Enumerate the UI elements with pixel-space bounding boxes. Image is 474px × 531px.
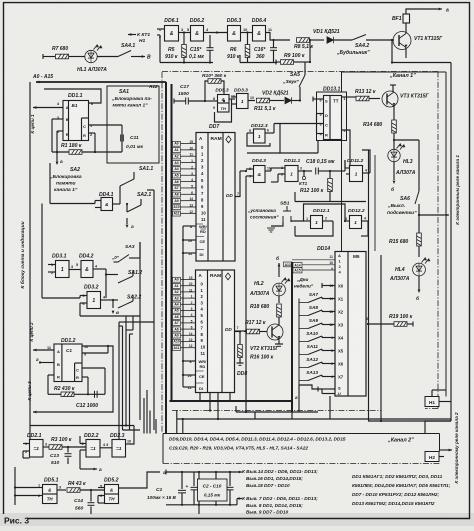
LED HL1 xyxy=(85,50,97,62)
node KT1 xyxy=(302,176,305,179)
resistor R8 xyxy=(297,38,310,43)
capacitor C13 xyxy=(67,447,69,453)
logic gate DD6.4 xyxy=(253,26,266,42)
wire xyxy=(298,170,312,172)
switches SA7-SA13 xyxy=(298,299,300,386)
resistor R12 xyxy=(329,170,331,172)
wire xyxy=(299,385,322,389)
wire xyxy=(312,97,314,102)
wire xyxy=(118,322,120,440)
node a xyxy=(80,468,92,470)
wire bus A0-A15 xyxy=(36,81,39,84)
diode VD2 xyxy=(285,97,291,103)
wire xyxy=(94,133,96,152)
wire xyxy=(310,39,324,41)
wire xyxy=(204,32,228,34)
wire xyxy=(93,268,106,270)
logic gate DD6.1 xyxy=(165,26,179,42)
lamp H2 xyxy=(425,452,439,462)
wire xyxy=(50,203,95,205)
wire xyxy=(100,447,112,449)
wire xyxy=(291,221,304,222)
wire xyxy=(157,28,165,30)
wire xyxy=(40,362,54,364)
transistor VT3 xyxy=(382,91,398,107)
wire xyxy=(266,33,291,41)
wire WR chain xyxy=(182,226,184,387)
wire xyxy=(15,487,36,489)
wire xyxy=(280,134,318,154)
net label A14 xyxy=(293,263,302,268)
IC DD7 RAM xyxy=(196,133,235,262)
bold rail xyxy=(170,400,293,402)
wire xyxy=(29,82,31,412)
wire xyxy=(159,35,161,63)
resistor R9 xyxy=(275,60,277,65)
wire xyxy=(44,89,101,103)
logic gate DD6.2 xyxy=(191,26,204,42)
resistor R11 xyxy=(257,98,270,103)
LED HL3 xyxy=(393,140,395,149)
capacitor C18 xyxy=(316,168,319,175)
transistor VT2 xyxy=(267,324,283,340)
net label К КТ1 Н1 xyxy=(128,33,131,36)
wire xyxy=(393,112,395,120)
wire xyxy=(393,139,395,141)
switch SA4.2 xyxy=(352,35,366,41)
net label A13 xyxy=(284,262,293,267)
node a xyxy=(56,162,59,165)
switch SA4.1 xyxy=(118,51,131,57)
wire xyxy=(177,418,451,420)
wire xyxy=(179,32,191,34)
wire xyxy=(391,40,393,63)
lamp H1 xyxy=(425,397,439,407)
LED HL2 xyxy=(273,283,286,296)
wire xyxy=(198,501,200,514)
wire xyxy=(248,100,255,102)
wire xyxy=(425,421,451,434)
capacitor C11 xyxy=(121,138,123,152)
terminal X0 xyxy=(321,283,323,288)
wire xyxy=(368,150,370,421)
capacitor xyxy=(193,472,195,486)
logic gate DD6.3 xyxy=(228,26,241,42)
wire к цепи 1 xyxy=(33,107,63,109)
channel 1 frame xyxy=(341,72,343,92)
wire xyxy=(97,56,118,58)
wire xyxy=(69,269,81,271)
wire xyxy=(329,396,331,412)
capacitors C2-C10 box xyxy=(198,479,228,501)
wire xyxy=(52,118,63,120)
IC DD8 RAM xyxy=(196,270,235,393)
annotation SA1 box xyxy=(107,86,159,163)
net label A15 xyxy=(293,268,302,273)
wire xyxy=(43,56,55,58)
wire xyxy=(125,316,127,330)
bus A13 bold xyxy=(291,262,293,412)
wire DD13.1 Q2 down xyxy=(342,130,351,166)
wire xyxy=(41,204,43,299)
diode VD1 xyxy=(327,37,333,43)
wire xyxy=(245,176,247,331)
wire xyxy=(240,62,277,64)
wire xyxy=(69,56,85,58)
wire xyxy=(33,349,36,352)
bus bold xyxy=(171,84,173,401)
wire xyxy=(33,346,113,412)
pins A0-A11 DD8 xyxy=(173,277,181,282)
wire to relay 1 xyxy=(418,214,420,216)
wire xyxy=(304,204,346,221)
channel divider dash-dot xyxy=(161,72,163,433)
pins A0-A11 DD7 xyxy=(173,141,181,146)
node a xyxy=(126,218,128,224)
wire xyxy=(330,170,345,172)
wire xyxy=(278,296,280,303)
wire xyxy=(119,472,161,488)
LED HL4 xyxy=(413,263,426,276)
wire xyxy=(292,259,335,261)
wire xyxy=(104,368,106,394)
transistor VT1 xyxy=(391,39,393,41)
resistor R7 xyxy=(56,54,69,59)
switch SA5 xyxy=(304,62,306,75)
ground xyxy=(267,228,275,232)
wire xyxy=(166,504,237,506)
wire xyxy=(241,32,253,34)
capacitor C12 xyxy=(95,391,98,398)
node в xyxy=(112,300,114,308)
bus A12 bold xyxy=(165,82,167,433)
capacitor C14 xyxy=(90,490,92,502)
channel 2 label box xyxy=(163,433,440,435)
wire xyxy=(215,99,232,122)
wire DD13.1 Q to R13 xyxy=(342,96,353,98)
buzzer BF1 xyxy=(403,14,410,23)
